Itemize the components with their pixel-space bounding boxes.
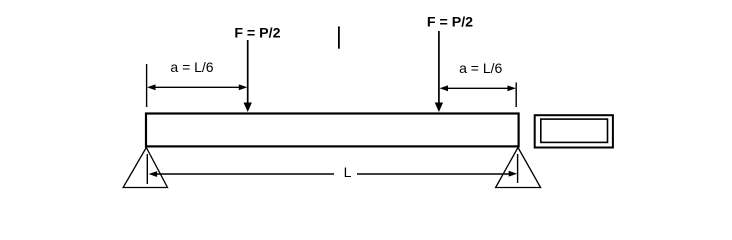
svg-text:F = P/2: F = P/2 [234,25,280,41]
left a dimension line [147,84,247,90]
svg-text:a = L/6: a = L/6 [459,60,502,76]
svg-text:a = L/6: a = L/6 [170,59,213,75]
left support triangle [123,148,167,188]
left support extension line (L dimension) [146,154,148,184]
svg-text:L: L [344,164,352,180]
text cursor tick [338,26,340,48]
svg-text:F = P/2: F = P/2 [427,15,473,31]
right a dimension line [440,85,517,91]
span dimension line L [149,171,518,177]
right support triangle [496,148,541,188]
beam rectangle [146,114,519,147]
right load arrow F=P/2 [435,31,443,112]
right support extension line (L dimension) [517,154,519,183]
cross-section outer rectangle [535,115,613,147]
left load arrow F=P/2 [244,40,252,112]
cross-section inner rectangle [541,119,608,142]
left a dimension extension line [146,64,148,107]
right a dimension extension line [515,83,517,108]
